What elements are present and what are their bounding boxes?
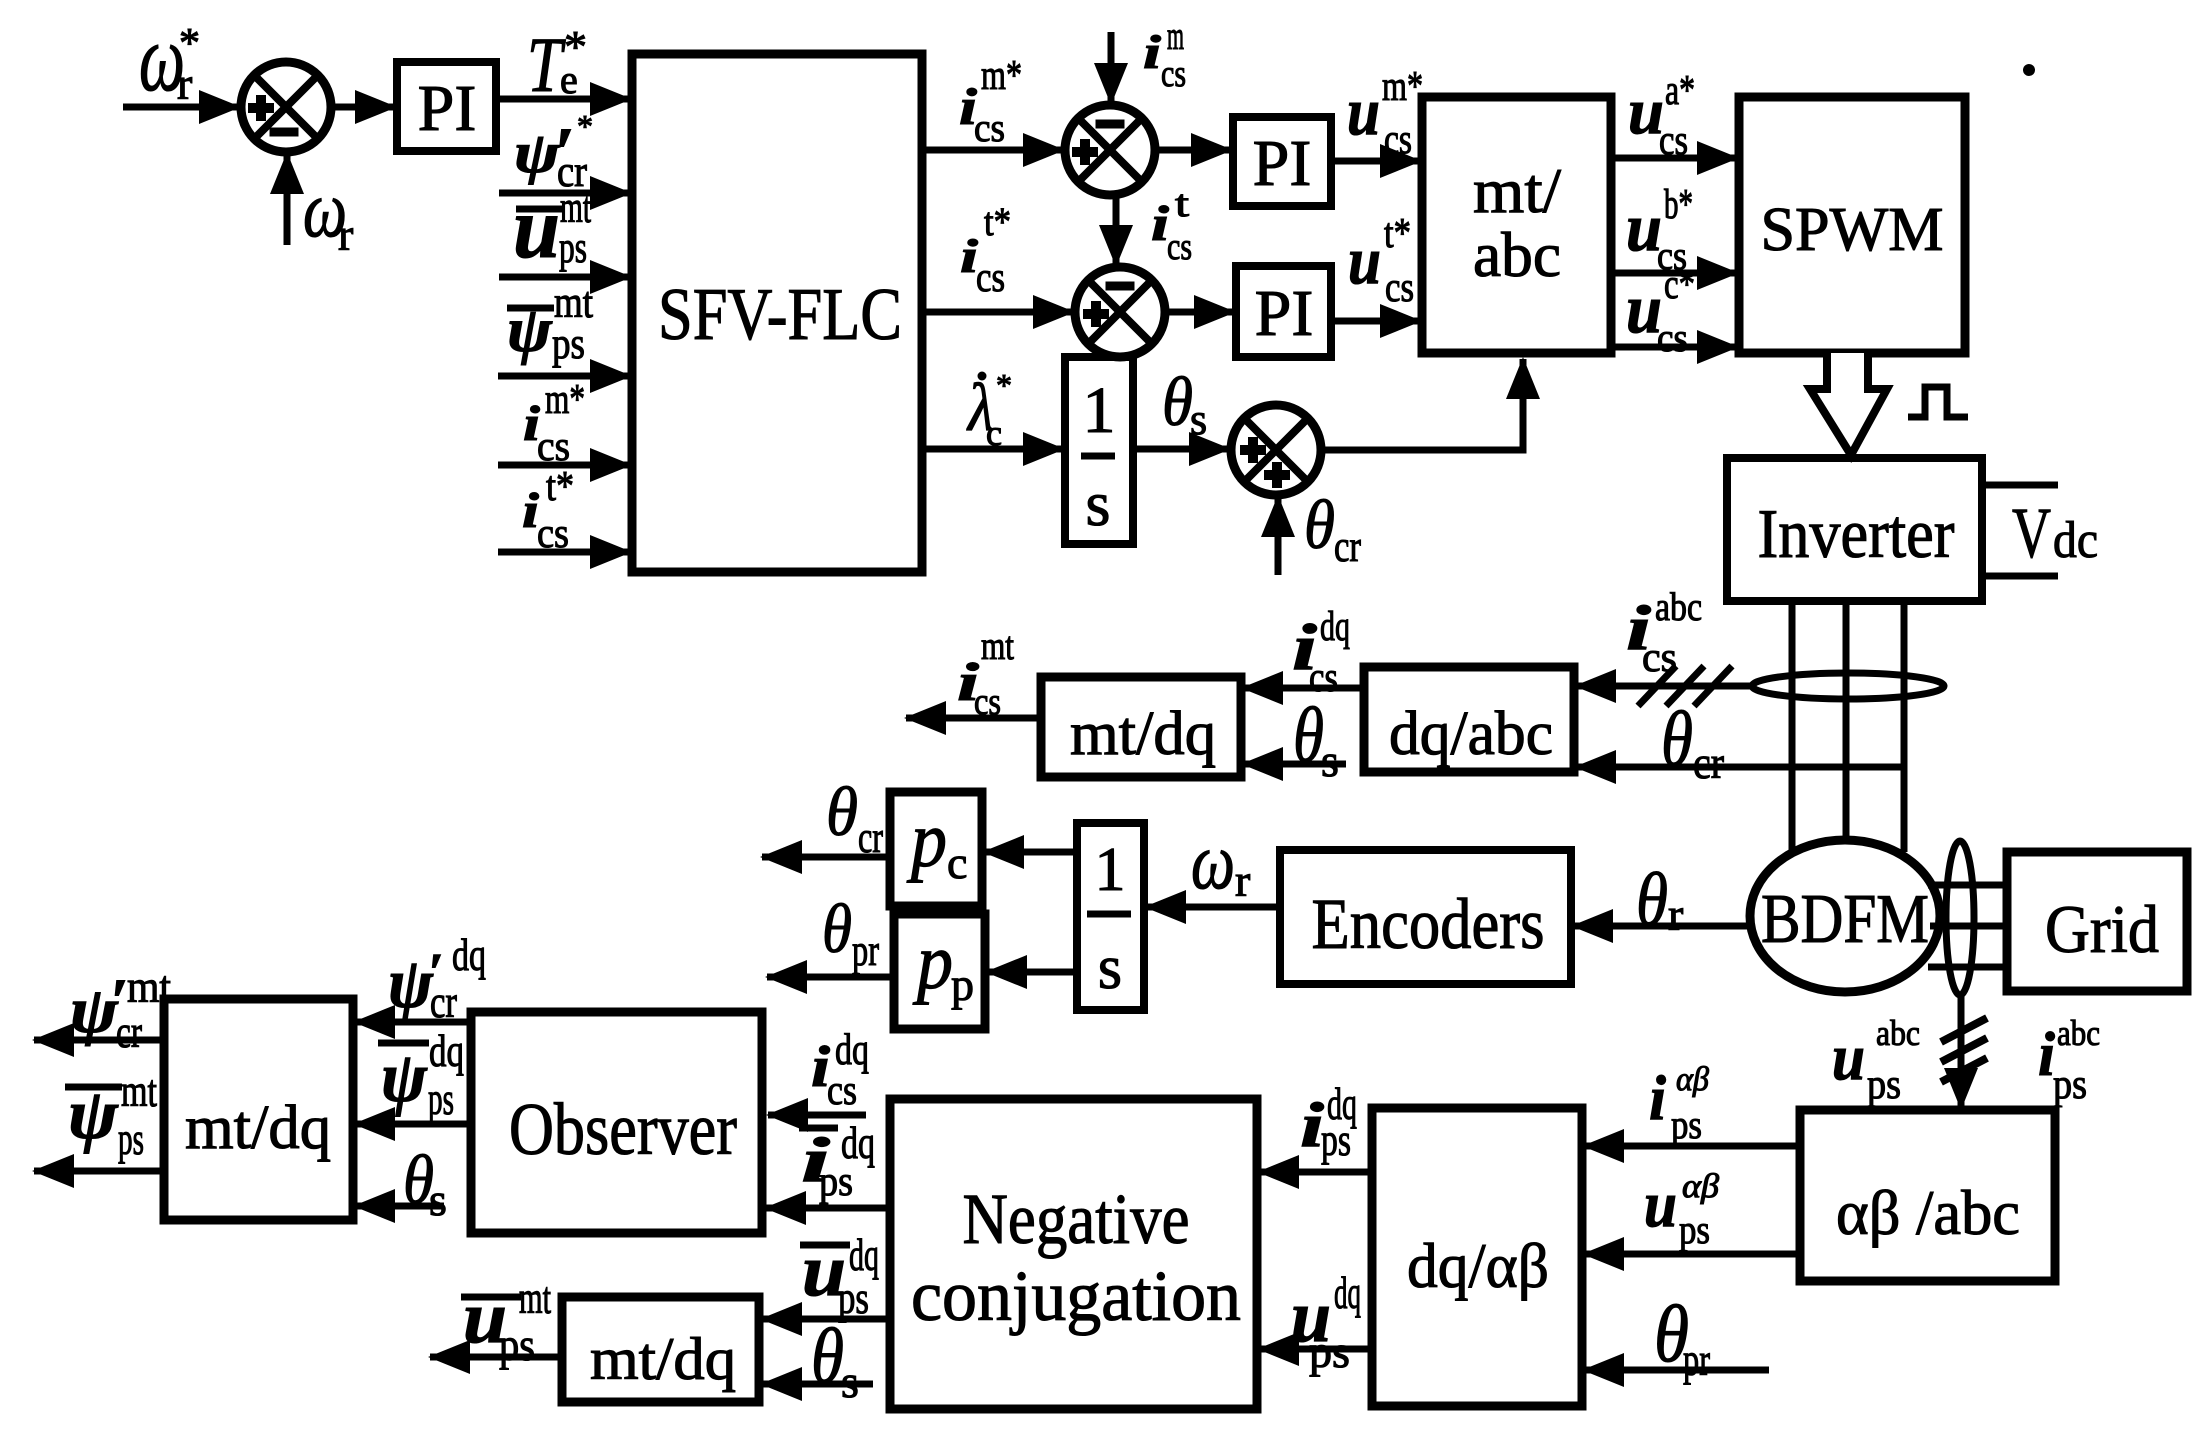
svg-text:dq/αβ: dq/αβ [1407,1230,1549,1301]
svg-text:αβ: αβ [1682,1168,1719,1205]
svg-text:cr: cr [1693,737,1724,788]
label theta_s mtdq left [403,1142,447,1225]
wire i_cs_m top input to J2 [1108,32,1115,103]
wire theta_cr up into J4 [1275,497,1282,575]
block SFV-FLC [632,54,922,572]
svg-text:dq: dq [1334,1267,1361,1318]
wire SFV input i_cs_t* [498,549,630,556]
wire Observer to mt/dq psi_cr_dq [355,1019,471,1026]
svg-text:ps: ps [428,1073,454,1124]
svg-text:cs: cs [1657,315,1688,360]
wire SFV out i_cs_t* to J3 [922,309,1073,316]
label psi'_cr_mt [70,961,171,1057]
label psi'_cr_dq [388,929,486,1027]
slash marks 3-phase [1638,666,1676,706]
wire dq/ab to Negative conjugation u_ps_dq [1259,1346,1372,1353]
svg-text:Negative: Negative [963,1179,1190,1259]
label i_ps_dq [1300,1078,1357,1165]
wire 1/s to J4 theta_s [1133,446,1229,453]
label i_cs_dq [1292,604,1350,701]
summing junction J3 current t error [1075,267,1165,357]
svg-text:e: e [560,57,578,102]
winding ellipse vertical near Grid [1946,841,1974,995]
svg-text:SFV-FLC: SFV-FLC [658,274,902,356]
svg-text:PI: PI [1255,277,1314,350]
svg-text:cs: cs [976,255,1005,301]
svg-text:θ: θ [1661,695,1693,782]
svg-text:u: u [1348,222,1381,298]
svg-text:s: s [1086,468,1111,539]
svg-text:V: V [2012,493,2051,573]
svg-text:ps: ps [1679,1207,1710,1252]
svg-text:mt/dq: mt/dq [185,1094,331,1162]
summing junction J2 current m error [1065,105,1155,195]
svg-text:ω: ω [1191,818,1235,906]
svg-text:mt: mt [981,623,1014,668]
label u_ps_dq [1291,1267,1361,1377]
svg-text:c: c [947,837,967,888]
block Inverter [1727,458,1982,601]
svg-text:cs: cs [827,1068,857,1114]
svg-text:cs: cs [537,511,569,557]
svg-text:dq: dq [452,929,486,980]
label i_cs_abc [1626,584,1702,681]
svg-text:c: c [986,413,1002,453]
svg-text:cr: cr [858,813,883,862]
label u_ps_abc [1832,1013,1920,1108]
svg-text:s: s [1098,934,1122,1002]
wire PI2 to mt/abc u_cs_m* [1331,158,1420,165]
svg-text:t*: t* [1384,211,1411,257]
label lambdadot_c* [978,372,987,381]
svg-text:m*: m* [545,377,585,423]
svg-text:dq: dq [835,1025,869,1074]
svg-text:t*: t* [546,464,574,510]
svg-text:θ: θ [1304,487,1335,564]
wire BDFM to Encoders theta_r [1573,923,1750,930]
svg-text:θ: θ [811,1312,844,1399]
svg-text:PI: PI [1253,127,1312,200]
svg-text:*: * [996,367,1012,403]
svg-text:cs: cs [1642,635,1677,681]
svg-text:b*: b* [1664,182,1693,228]
wire Vdc stub top [1982,482,2058,489]
svg-text:mt/: mt/ [1473,155,1561,226]
summing junction J4 angle sum [1231,405,1321,495]
svg-text:SPWM: SPWM [1761,196,1944,264]
label theta_cr J4 [1304,487,1361,571]
block dq/abc [1364,667,1574,772]
svg-text:cs: cs [1161,53,1186,95]
svg-text:mt: mt [519,1272,551,1323]
svg-text:u: u [1347,73,1380,149]
svg-text:dq: dq [1320,604,1350,650]
svg-text:dq/abc: dq/abc [1389,700,1553,768]
label i_ps_alphabeta [1649,1061,1709,1147]
wire Observer to mt/dq psi_ps_dq [355,1121,471,1128]
svg-text:BDFM: BDFM [1761,881,1929,958]
svg-text:Inverter: Inverter [1758,496,1955,573]
label i_cs_dq obs [811,1025,869,1114]
wire Negative conjugation to mt/dq bottom u_ps_dq [762,1316,890,1323]
wire dq/abc to mt/dq i_cs_dq [1243,685,1364,692]
label i_cs_m* out [959,53,1022,150]
svg-text:cs: cs [1384,117,1412,163]
wire i_cs_dq stub into Observer [768,1112,866,1119]
svg-text:ψ: ψ [388,943,434,1023]
wire J2 to PI2 [1155,147,1231,154]
svg-text:θ: θ [1162,364,1193,441]
svg-text:p: p [951,959,974,1010]
svg-text:dq: dq [429,1025,464,1076]
wire mt/dq out psi_cr_mt [34,1037,164,1044]
svg-text:ps: ps [2053,1062,2087,1108]
svg-text:mt: mt [121,1065,157,1116]
wire mt/dq out psi_ps_mt [34,1168,164,1175]
svg-text:mt/dq: mt/dq [590,1326,736,1392]
label psibar_ps_mt out [65,1065,157,1164]
svg-text:ps: ps [1867,1062,1901,1108]
label ibar_ps_dq [799,1117,875,1205]
stray dot top right [2023,64,2035,76]
label theta_r [1636,858,1683,942]
wire J1 to PI [331,104,395,111]
label u_ps_alphabeta [1644,1168,1719,1252]
label theta_s mtdq [1293,691,1339,786]
svg-text:mt: mt [127,961,171,1012]
block mt/dq left [164,999,353,1220]
svg-text:ps: ps [499,1319,535,1370]
svg-text:r: r [177,58,192,109]
wire J4 right then up into mt/abc bottom [1321,396,1523,450]
label u_cs_b* [1626,182,1693,278]
svg-text:s: s [1190,395,1207,444]
svg-text:θ: θ [826,774,858,851]
wire pc out theta_cr [762,854,890,861]
wire mt/dq out i_cs_mt [906,715,1041,722]
wire theta_s stub into mt/dq left [355,1203,444,1210]
wire PI to SFV-FLC with Te* [496,96,630,103]
summing junction J1 speed error [241,62,331,152]
label omega_r enc [1191,818,1250,906]
wire mt/abc to SPWM u_cs_c* [1611,344,1737,351]
label omega_r [303,166,353,260]
block Observer [471,1012,762,1233]
label theta_pr dqab [1654,1288,1710,1385]
label u_ps_mt [513,180,591,277]
wire 1/s to pp [987,969,1077,976]
svg-text:m*: m* [1382,64,1423,110]
wire dq/ab to Negative conjugation i_ps_dq [1259,1169,1372,1176]
wire SFV input psi_cr* [499,190,630,197]
svg-text:mt/dq: mt/dq [1070,700,1216,768]
wire J3 to PI3 [1165,309,1234,316]
block alpha-beta/abc [1800,1110,2055,1281]
label psibar_ps_dq [378,1025,464,1124]
label theta_s mtdq bottom [811,1312,859,1407]
svg-text:Encoders: Encoders [1312,884,1545,964]
wire SFV input u_ps_mt [499,274,630,281]
label ubar_ps_dq [800,1229,879,1323]
wire mt/abc to SPWM u_cs_a* [1611,155,1737,162]
svg-text:t: t [1175,183,1190,225]
svg-text:abc: abc [2057,1013,2100,1053]
svg-text:u: u [513,180,560,277]
svg-text:abc: abc [1655,584,1702,629]
wire Vdc stub bottom [1982,573,2058,580]
svg-text:θ: θ [822,891,852,968]
svg-text:θ: θ [1293,691,1324,778]
svg-text:c*: c* [1664,262,1695,308]
block Negative conjugation [890,1099,1257,1409]
svg-text:cs: cs [1385,265,1414,311]
wire Encoders to 1/s omega_r [1146,904,1280,911]
svg-text:1: 1 [1083,374,1116,447]
label i_cs_t* [960,199,1011,301]
block Grid [2007,852,2187,991]
svg-text:i: i [1143,26,1162,79]
svg-text:ps: ps [1671,1102,1702,1147]
block Encoders [1280,850,1571,984]
svg-text:ps: ps [559,223,587,272]
wire theta_s stub into mt/dq upper [1243,761,1346,768]
svg-text:i: i [1649,1062,1666,1133]
svg-text:θ: θ [1636,858,1668,942]
svg-text:r: r [1235,855,1250,906]
svg-text:ps: ps [552,319,585,368]
block mt/dq bottom [562,1297,759,1402]
block pc pole pairs [890,792,982,906]
wire omega_r* input arrow [123,104,239,111]
wire theta_pr into dq/ab [1584,1367,1769,1374]
label theta_s 1 [1162,364,1207,444]
wire omega_r feedback up into J1 [284,154,291,245]
winding ellipse on inverter leads [1752,673,1944,699]
svg-text:p: p [906,796,947,883]
wire SFV out lambda_c* to 1/s [922,446,1063,453]
label u_cs_c* [1626,262,1695,360]
svg-text:u: u [1832,1021,1865,1094]
label i_ps_abc [2038,1013,2100,1108]
svg-text:cr: cr [116,1006,142,1057]
svg-text:abc: abc [1876,1013,1920,1053]
wire PI3 to mt/abc u_cs_t* [1331,318,1420,325]
wire Negative conjugation to Observer i_ps_dq [766,1205,888,1212]
wire BDFM to Grid phase lines [1928,882,2007,889]
wire grid tap down to ab/abc with slashes [1958,995,1965,1108]
svg-text:s: s [1321,735,1339,786]
wire mt/dq bottom out u_ps_mt [430,1354,562,1361]
block mt/dq upper [1041,677,1241,777]
svg-text:ps: ps [1321,1114,1351,1165]
label ubar_ps_mt [461,1272,551,1370]
svg-text:conjugation: conjugation [911,1256,1241,1336]
svg-text:a*: a* [1665,68,1695,114]
svg-text:p: p [912,918,953,1005]
label T_e* [527,21,587,108]
label i_cs_m* [523,377,585,470]
svg-text:PI: PI [418,72,477,145]
wire theta_s stub into mt/dq bottom [762,1381,873,1388]
wire 1/s to pc [984,849,1077,856]
block SPWM [1739,97,1965,353]
block integrator 1/s lower [1077,823,1144,1010]
svg-text:ps: ps [118,1113,144,1164]
wire i_cs_abc to dq/abc with slashes [1576,683,1753,690]
svg-text:cr: cr [430,976,457,1027]
svg-text:cs: cs [974,681,1001,723]
wire inverter to BDFM phase a [1789,601,1796,852]
block PI current m controller [1233,117,1331,206]
label omega_r* [139,4,200,111]
block PI current t controller [1236,266,1331,357]
label theta_pr pp [822,891,879,975]
machine BDFM [1750,840,1940,992]
svg-text:dc: dc [2053,512,2098,569]
block mt/abc transform [1422,97,1611,353]
pulse symbol [1908,387,1968,417]
block pp pole pairs [894,914,985,1029]
label theta_cr pc [826,774,883,862]
svg-text:abc: abc [1473,219,1561,290]
block dq/alpha-beta [1372,1108,1582,1406]
svg-text:pr: pr [1683,1334,1710,1385]
svg-text:r: r [1668,889,1683,940]
svg-text:cr: cr [1334,522,1361,571]
svg-text:u: u [1644,1168,1677,1241]
block PI speed controller [397,62,496,151]
svg-text:αβ /abc: αβ /abc [1836,1177,2020,1248]
svg-text:Observer: Observer [509,1089,737,1171]
wire inverter to BDFM phase c [1901,601,1908,852]
svg-text:cs: cs [1659,118,1688,164]
wire mt/abc to SPWM u_cs_b* [1611,270,1737,277]
svg-text:ps: ps [819,1159,853,1205]
block integrator 1/s upper [1065,357,1133,544]
label u_cs_m* [1347,64,1423,163]
label i_cs_mt [957,623,1014,723]
wire ab/abc to dq/ab u_ps_ab [1584,1251,1800,1258]
label i_cs_m top [1143,13,1186,95]
label i_cs_t* [522,464,574,557]
svg-text:cs: cs [974,105,1005,150]
wire pp out theta_pr [767,974,894,981]
svg-text:m*: m* [981,53,1022,99]
label u_cs_t* [1348,211,1414,311]
svg-text:*: * [577,108,593,144]
svg-text:m: m [1167,13,1184,58]
svg-text:αβ: αβ [1676,1061,1709,1098]
svg-text:cs: cs [1167,226,1192,268]
svg-text:1: 1 [1095,836,1126,904]
wire SFV out i_cs_m* to J2 [922,147,1063,154]
wire SFV input psi_ps_mt [498,373,630,380]
svg-text:pr: pr [852,926,879,975]
label Vdc [2012,493,2098,573]
wire inverter to BDFM phase b [1843,601,1850,845]
wire J2 down to J3 i_cs_t [1113,195,1120,265]
svg-text:s: s [429,1174,447,1225]
svg-text:ψ: ψ [381,1037,428,1117]
label i_cs_t [1151,183,1192,268]
label psi'_cr* [514,108,593,196]
svg-text:ps: ps [1309,1326,1350,1377]
svg-text:Grid: Grid [2045,891,2159,967]
label u_cs_a* [1628,68,1695,164]
svg-text:r: r [338,209,353,260]
wire SFV input i_cs_m* [498,462,630,469]
svg-text:t*: t* [984,199,1011,244]
svg-text:s: s [841,1356,859,1407]
label psibar_ps_mt [507,278,593,368]
hollow arrow SPWM to Inverter [1810,353,1887,455]
wire theta_cr into dq/abc [1576,764,1905,771]
wire ab/abc to dq/ab i_ps_ab [1584,1143,1799,1150]
label theta_cr dqabc [1661,695,1724,788]
